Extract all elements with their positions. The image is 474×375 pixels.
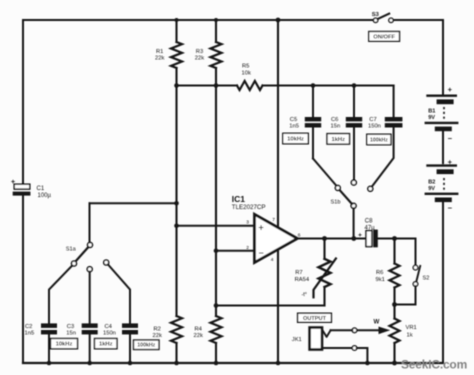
svg-text:22k: 22k xyxy=(153,333,162,339)
svg-text:9V: 9V xyxy=(428,115,435,121)
wire R7 bottom lead xyxy=(323,287,325,306)
svg-text:JK1: JK1 xyxy=(292,337,302,343)
junction noninverting input xyxy=(174,224,179,229)
svg-text:C5: C5 xyxy=(290,117,297,123)
svg-text:10kHz: 10kHz xyxy=(287,137,304,143)
switch S1b throw 3 xyxy=(368,186,373,191)
svg-text:22k: 22k xyxy=(155,56,164,62)
svg-text:9V: 9V xyxy=(428,186,435,192)
junction R4 ground xyxy=(214,361,219,366)
svg-text:+: + xyxy=(259,223,264,233)
jack JK1 body xyxy=(310,328,322,350)
wiper arrow xyxy=(379,327,389,333)
svg-text:4: 4 xyxy=(271,257,274,263)
svg-text:1kHz: 1kHz xyxy=(99,342,113,348)
wire to VR1 top xyxy=(393,305,395,319)
svg-text:TLE2027CP: TLE2027CP xyxy=(232,204,266,211)
svg-text:OUTPUT: OUTPUT xyxy=(303,316,327,322)
svg-text:S1a: S1a xyxy=(66,246,77,252)
junction R7 tap xyxy=(322,236,327,241)
label 100kHz upper xyxy=(367,134,391,145)
svg-text:−: − xyxy=(259,248,264,258)
wire V+ to pin 7 xyxy=(277,20,279,228)
svg-text:C8: C8 xyxy=(365,219,373,225)
svg-text:VR1: VR1 xyxy=(406,325,417,331)
wire S1a throw2 to C3 xyxy=(89,272,91,324)
wire bus R5 to C7 column xyxy=(263,85,394,87)
svg-text:C4: C4 xyxy=(105,324,113,330)
wire S1a pole lead xyxy=(89,203,91,242)
capacitor C7 xyxy=(393,86,395,118)
svg-text:−: − xyxy=(448,204,453,213)
svg-text:R1: R1 xyxy=(156,49,163,55)
wire C8 to S2 corner xyxy=(378,238,416,240)
wire bottom rail xyxy=(23,362,443,364)
svg-text:15n: 15n xyxy=(66,331,76,337)
wire S1a feed horizontal xyxy=(90,202,177,204)
switch S1a throw 2 xyxy=(87,267,92,272)
wire S1a throw3 to C4 xyxy=(108,265,130,324)
resistor R1 xyxy=(171,42,182,68)
junction sleeve ground xyxy=(365,361,370,366)
switch S1b throw 1 xyxy=(335,185,340,190)
resistor R2 xyxy=(171,316,182,343)
wire R3 bottom lead xyxy=(215,68,217,86)
label 10kHz upper xyxy=(283,133,309,144)
svg-text:B2: B2 xyxy=(428,180,435,186)
junction S1b pole tap xyxy=(351,236,356,241)
junction R6 top xyxy=(392,236,397,241)
resistor R4 xyxy=(211,316,222,343)
capacitor C4 xyxy=(122,323,138,328)
wire C7 to S1b throw3 xyxy=(372,128,394,187)
svg-text:B1: B1 xyxy=(428,109,435,115)
sleeve connector circle xyxy=(352,346,357,351)
wire R6 bottom lead xyxy=(393,288,395,305)
wire to pin 2 xyxy=(216,250,255,252)
wire jack tip to wiper xyxy=(331,329,353,331)
wire feedback to R4 node xyxy=(216,305,325,307)
svg-text:+: + xyxy=(448,85,453,94)
resistor R3 xyxy=(211,42,222,68)
label 10kHz lower xyxy=(51,339,78,349)
wire top rail right of S3 xyxy=(393,19,443,21)
svg-text:10kHz: 10kHz xyxy=(56,342,73,348)
switch S1a throw 1 xyxy=(72,261,77,266)
wire R3-R4 column xyxy=(215,86,217,317)
junction R6 S2 bottom xyxy=(392,302,397,307)
switch S1a lever xyxy=(76,247,89,261)
svg-text:100µ: 100µ xyxy=(38,193,52,199)
resistor R6 xyxy=(390,264,400,288)
svg-text:150n: 150n xyxy=(368,124,381,130)
junction R3 bus xyxy=(214,83,219,88)
wire S2 to R6 bottom xyxy=(395,286,416,304)
wire R3 top lead xyxy=(215,20,217,42)
svg-text:R3: R3 xyxy=(196,49,203,55)
resistor R5 xyxy=(237,81,263,90)
svg-text:C6: C6 xyxy=(331,117,338,123)
wire S1a throw1 to C2 xyxy=(49,266,72,324)
wire R7 top lead xyxy=(323,239,325,259)
wire bus R1 to R5 xyxy=(177,85,238,87)
svg-text:R4: R4 xyxy=(195,327,203,333)
svg-text:7: 7 xyxy=(272,217,275,223)
label 1kHz lower xyxy=(95,339,118,349)
svg-text:22k: 22k xyxy=(195,56,204,62)
wire C5 to S1b throw1 xyxy=(313,159,336,186)
switch S1a pole contact xyxy=(88,242,93,247)
svg-text:3: 3 xyxy=(246,220,249,226)
potentiometer VR1 xyxy=(390,319,400,344)
thermistor R7 xyxy=(319,259,331,287)
wire S2 top lead xyxy=(415,239,417,266)
wire C5 lead down xyxy=(312,128,314,159)
thermistor R7 slash xyxy=(314,259,336,298)
svg-text:100kHz: 100kHz xyxy=(137,343,155,349)
wire left rail to C1 xyxy=(22,20,24,184)
svg-text:+: + xyxy=(358,232,362,239)
capacitor C3 xyxy=(82,323,98,328)
svg-text:RA54: RA54 xyxy=(295,277,310,283)
svg-text:S2: S2 xyxy=(423,275,430,281)
wire op-amp output xyxy=(297,238,366,240)
wire sleeve to ground xyxy=(357,348,368,363)
svg-text:S3: S3 xyxy=(372,12,380,18)
junction R1 bus xyxy=(174,83,179,88)
svg-text:R7: R7 xyxy=(295,270,302,276)
op-amp U1 triangle xyxy=(255,214,298,262)
wire VR1 bottom lead xyxy=(393,343,395,363)
svg-text:10k: 10k xyxy=(242,70,251,76)
switch S3 left contact xyxy=(373,18,377,22)
junction inverting input xyxy=(214,249,219,254)
switch S1b pole contact xyxy=(351,203,356,208)
wire S1b pole to output xyxy=(353,208,355,238)
svg-text:150n: 150n xyxy=(103,331,116,337)
switch S1a throw 3 xyxy=(104,260,109,265)
wire right rail to B1 xyxy=(442,20,444,94)
svg-text:15n: 15n xyxy=(331,124,341,130)
junction S1a feed xyxy=(174,201,179,206)
wiper connector circle xyxy=(352,328,357,333)
capacitor C6 xyxy=(352,83,357,88)
svg-text:IC1: IC1 xyxy=(232,194,246,204)
wire C6 to S1b throw2 xyxy=(353,128,355,181)
svg-text:22k: 22k xyxy=(194,333,203,339)
wire top rail left of S3 xyxy=(23,19,373,21)
svg-text:9k1: 9k1 xyxy=(376,277,385,283)
switch S2 top contact xyxy=(413,265,418,270)
wire R2 bottom lead xyxy=(175,343,177,363)
svg-text:C3: C3 xyxy=(67,324,74,330)
jack tip contact xyxy=(323,330,331,337)
svg-text:S1b: S1b xyxy=(331,199,341,205)
wire jack sleeve xyxy=(322,347,352,349)
switch S3 right contact xyxy=(389,18,393,22)
junction R3 top xyxy=(214,18,218,22)
wire R1 top lead xyxy=(175,20,177,42)
switch S1b lever xyxy=(340,190,352,204)
svg-text:C1: C1 xyxy=(37,186,45,192)
junction R2 ground xyxy=(174,361,179,366)
svg-text:−: − xyxy=(448,134,453,143)
svg-text:C2: C2 xyxy=(25,324,32,330)
wire pin 4 to bottom rail xyxy=(277,250,279,363)
wire left rail below C1 xyxy=(22,196,24,363)
label 1kHz upper xyxy=(327,134,350,145)
svg-text:R5: R5 xyxy=(242,64,249,70)
svg-text:1n5: 1n5 xyxy=(289,124,299,130)
switch S2 bottom contact xyxy=(413,282,418,287)
svg-text:1n5: 1n5 xyxy=(25,331,35,337)
wire right rail below B2 xyxy=(442,202,444,363)
OUTPUT label box xyxy=(298,313,332,322)
label 100kHz lower xyxy=(134,340,160,350)
svg-text:SeekIC.com: SeekIC.com xyxy=(401,358,467,372)
junction VR1 ground xyxy=(392,361,397,366)
ON/OFF label box xyxy=(369,32,400,42)
svg-text:W: W xyxy=(374,319,380,326)
switch S1b throw 2 xyxy=(351,180,356,185)
svg-text:1kHz: 1kHz xyxy=(331,137,345,143)
wire to pin 3 xyxy=(177,225,255,227)
wire between B1 and B2 xyxy=(442,132,444,164)
junction pin4 ground xyxy=(276,361,281,366)
svg-text:ON/OFF: ON/OFF xyxy=(373,34,395,40)
switch S3 lever xyxy=(378,14,390,19)
switch S2 lever xyxy=(416,266,420,281)
capacitor C5 xyxy=(311,83,316,88)
svg-text:R2: R2 xyxy=(154,327,161,333)
wire R1 bottom lead xyxy=(175,68,177,86)
svg-text:1k: 1k xyxy=(407,333,413,339)
wire R6 top lead xyxy=(393,239,395,264)
wire R1-R2 column xyxy=(175,86,177,317)
svg-text:-t°: -t° xyxy=(302,292,307,298)
junction V+ rail xyxy=(276,18,281,23)
wire wiper xyxy=(357,329,380,331)
junction feedback node xyxy=(214,303,219,308)
svg-text:C7: C7 xyxy=(369,117,376,123)
svg-text:100kHz: 100kHz xyxy=(370,137,388,143)
wire R4 bottom lead xyxy=(215,343,217,363)
svg-text:R6: R6 xyxy=(376,270,383,276)
junction R1 top xyxy=(175,18,179,22)
capacitor C2 xyxy=(41,323,57,328)
